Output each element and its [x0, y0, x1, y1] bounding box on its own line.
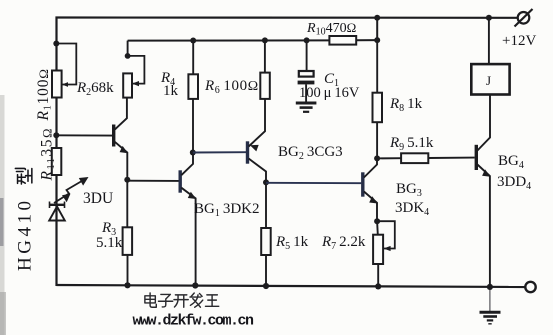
wire: R10 node to +12V rail [376, 18, 378, 40]
ground: under C1 [296, 103, 317, 112]
node: R4 top [190, 38, 196, 44]
transistor Q1 (input amplifier) [56, 98, 128, 180]
resistor R8 (1k) [373, 40, 383, 158]
node: R1 wiper to rail [53, 41, 59, 47]
terminal: bottom-right output terminal [525, 282, 535, 292]
svg-text:R1135Ω: R1135Ω [39, 127, 58, 182]
node: C1 top [304, 37, 310, 43]
svg-text:R8 1k: R8 1k [389, 96, 423, 114]
svg-text:+12V: +12V [502, 33, 536, 49]
svg-text:R268k: R268k [76, 80, 114, 98]
node: BG1 collector / R4 bottom / BG2 base [190, 150, 196, 156]
node: R5 at ground rail [263, 283, 269, 289]
node: BG2 collector / R5 / BG3 base [263, 179, 269, 185]
wire: BG1 collector node to BG2 base [193, 151, 246, 153]
svg-text:R7 2.2k: R7 2.2k [321, 234, 366, 252]
svg-text:R1100Ω: R1100Ω [35, 68, 54, 121]
svg-text:BG3: BG3 [396, 181, 422, 199]
wire: top +12V rail [57, 18, 518, 287]
wire: left rail lower segment through photodiode [56, 221, 58, 286]
node: relay feed on +12V rail [486, 15, 492, 21]
svg-text:R6100Ω: R6100Ω [204, 78, 259, 96]
resistor R5 (1k) [261, 182, 271, 286]
resistor R11 (35 ohm) [52, 148, 62, 175]
transistor BG2 (3CG3, PNP) [248, 131, 267, 183]
node: BG3 emitter / R7 top [374, 218, 380, 224]
svg-text:5.1k: 5.1k [96, 235, 123, 251]
transistor BG1 (3DK2) [127, 153, 196, 286]
label HG410 (vertical, device type) [15, 198, 36, 271]
resistor R9 (5.1k, horizontal) [377, 153, 475, 163]
hanzi XING (type) drawn, rotated [15, 168, 32, 184]
wire: BG2 collector node to BG3 base [266, 182, 361, 184]
svg-text:J: J [486, 73, 491, 88]
resistor R7 (rheostat 2.2k) [373, 221, 395, 287]
node: R6 top [262, 37, 268, 43]
node: R3 at ground rail [124, 282, 130, 288]
resistor R2 (rheostat 68k) [123, 41, 144, 98]
photodiode 3DU [49, 202, 65, 221]
capacitor C1 (electrolytic 100u 16V) [298, 40, 315, 102]
svg-text:BG1 3DK2: BG1 3DK2 [194, 201, 260, 219]
wire: second rail (base bias rail) [128, 39, 330, 41]
svg-text:HG410: HG410 [15, 198, 36, 271]
scan edge shading (decorative) [0, 95, 6, 335]
svg-text:3DU: 3DU [83, 190, 113, 207]
svg-text:100 μ 16V: 100 μ 16V [299, 85, 360, 101]
label R11 35 ohm (vertical) [39, 127, 58, 182]
svg-text:R5 1k: R5 1k [275, 234, 309, 252]
terminal: +12V supply terminal [502, 9, 536, 49]
svg-text:www.dzkfw.com.cn: www.dzkfw.com.cn [133, 313, 255, 330]
resistor R10 (470 ohm, horizontal) [329, 36, 356, 45]
svg-text:3DK4: 3DK4 [395, 200, 429, 218]
watermark hanzi: dian zi kai fa wang [145, 293, 219, 307]
node: BG3 collector / R8 bottom / R9 left [374, 155, 380, 161]
relay J [471, 18, 509, 95]
svg-text:BG2 3CG3: BG2 3CG3 [278, 144, 343, 162]
ground: bottom-right earth symbol [480, 287, 501, 324]
node: R10 vertical at +12V rail [374, 15, 380, 21]
svg-text:1k: 1k [163, 83, 179, 99]
svg-text:3DD4: 3DD4 [497, 174, 531, 192]
resistor R3 (5.1k) [123, 180, 133, 286]
svg-text:BG4: BG4 [498, 153, 524, 171]
svg-text:R9 5.1k: R9 5.1k [389, 135, 434, 153]
transistor BG3 (3DK4) [363, 158, 378, 221]
node: R2 wiper junction [125, 53, 131, 59]
resistor R4 (1k) [188, 41, 198, 153]
resistor R6 (100 ohm) [260, 40, 270, 130]
node: photo-diode / Q1 base [53, 132, 59, 138]
svg-text:R10470Ω: R10470Ω [306, 20, 356, 38]
node: R10 right / R8 top [374, 37, 380, 43]
label R1 100 ohm (vertical) [35, 68, 54, 121]
light arrows into 3DU [54, 177, 89, 203]
node: R7 at ground rail [375, 283, 381, 289]
wire: bottom ground rail [57, 285, 526, 287]
node: Q1 emitter / BG1 base [124, 177, 130, 183]
transistor BG4 (3DD4) [476, 95, 490, 288]
node: BG1 emitter at ground rail [192, 282, 198, 288]
resistor R1 (rheostat 100 ohm) [52, 44, 76, 98]
node: BG4 emitter at ground rail [487, 284, 493, 290]
